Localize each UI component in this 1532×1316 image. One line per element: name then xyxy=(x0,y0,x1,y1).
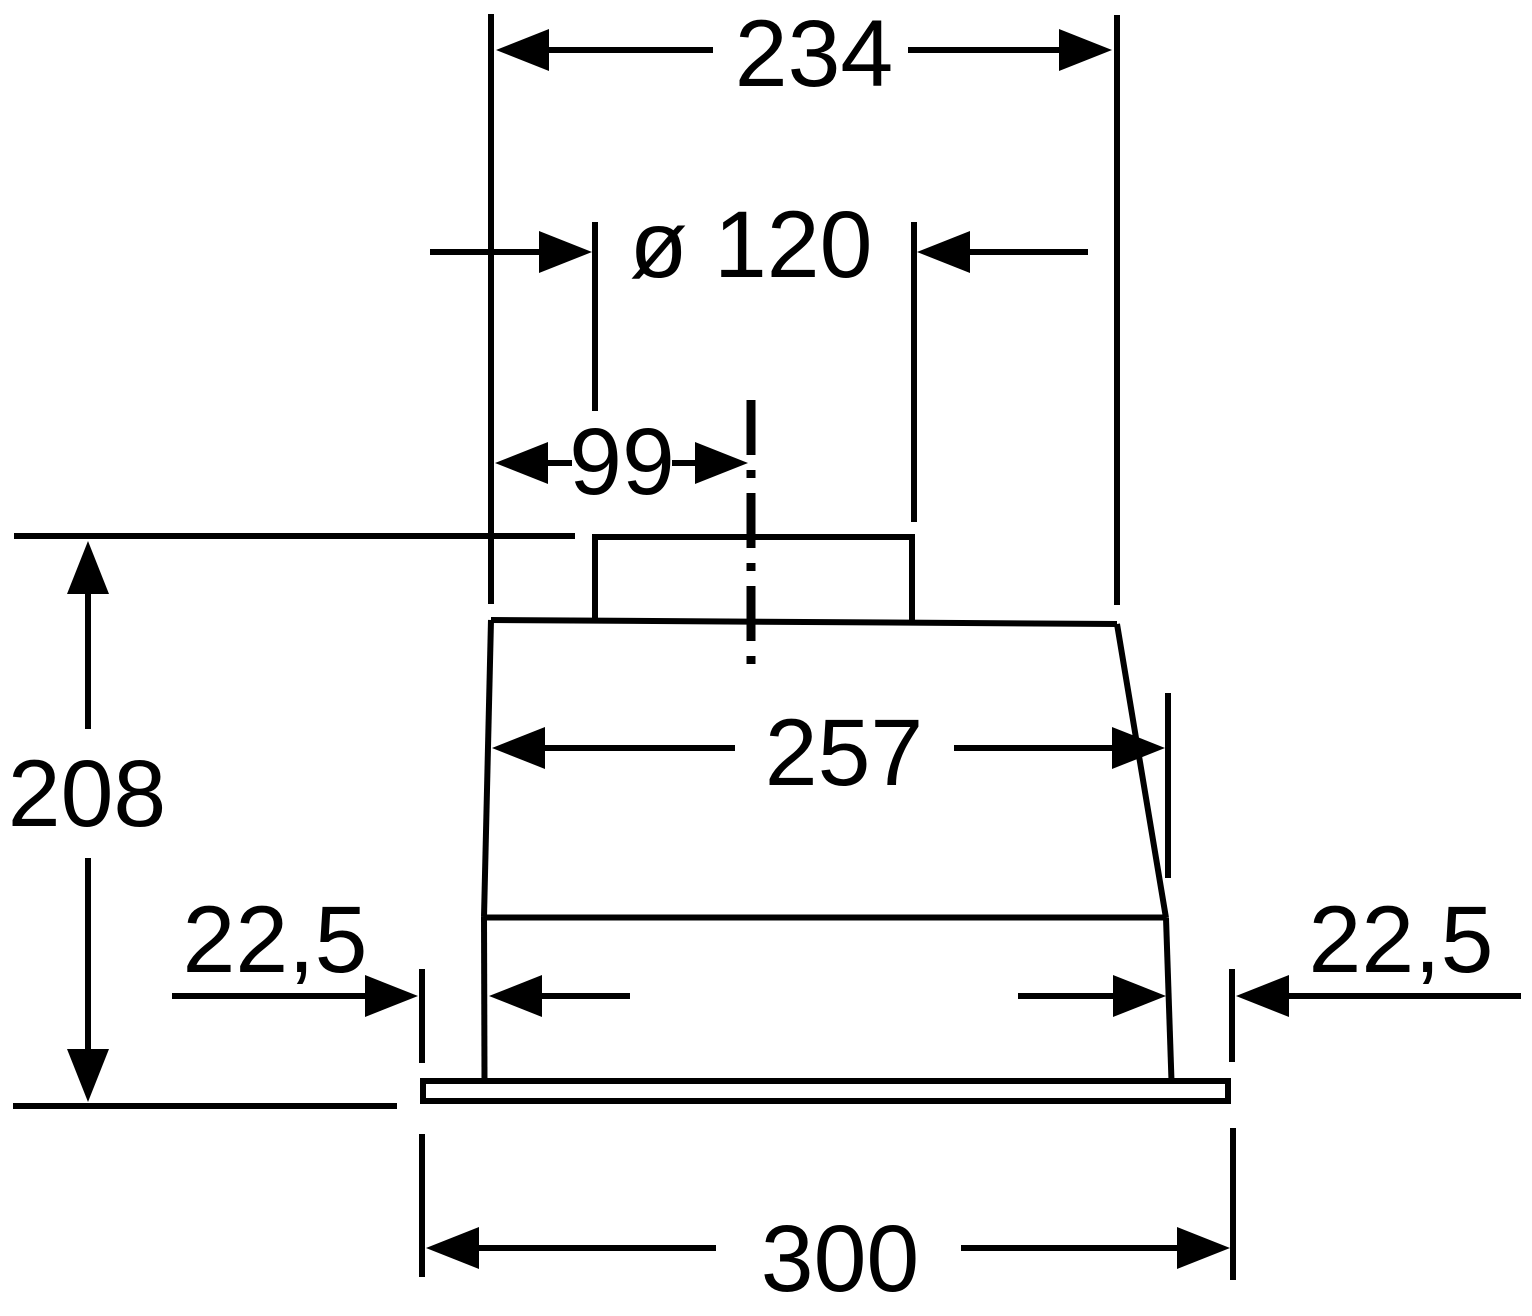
svg-text:22,5: 22,5 xyxy=(183,887,368,993)
wire: 234 dimension line left segment xyxy=(545,47,713,53)
arrowhead: 257 right xyxy=(1112,727,1165,769)
node: vertical centerline (dash-dot) xyxy=(747,400,756,667)
wire: 300 left extension line xyxy=(419,1134,425,1277)
arrowhead: 234 left xyxy=(496,29,549,71)
mounting flange outline xyxy=(423,1081,1228,1101)
wire: left 22,5 extension line xyxy=(419,969,425,1063)
wire: dia120 right extension line xyxy=(911,222,917,522)
svg-text:ø 120: ø 120 xyxy=(630,192,873,298)
arrowhead: dia120 right (pointing left) xyxy=(917,231,970,273)
wire: 208 dimension line lower shaft xyxy=(85,858,91,1052)
wire: 300 dimension line left segment xyxy=(476,1245,716,1251)
duct collar right edge xyxy=(909,535,915,621)
wire: right inner reference arrow shaft xyxy=(1018,993,1116,999)
wire: left inner reference arrow shaft xyxy=(539,993,630,999)
duct collar left edge xyxy=(592,535,598,621)
wire: 257 dimension line left segment xyxy=(542,745,735,751)
wire: 300 right extension line xyxy=(1230,1128,1236,1280)
arrowhead: right inner (pointing right) xyxy=(1113,975,1166,1017)
svg-text:300: 300 xyxy=(761,1206,920,1312)
arrowhead: left 22,5 (pointing right) xyxy=(365,975,418,1017)
wire: 257 dimension line right segment xyxy=(954,745,1116,751)
wire: 234 right extension line xyxy=(1114,15,1120,605)
wire: dia120 left extension line xyxy=(592,222,598,411)
wire: 234 dimension line right segment xyxy=(908,47,1062,53)
wire: 208 top reference line xyxy=(14,533,575,539)
hood body middle horizontal edge xyxy=(484,915,1166,921)
arrowhead: 300 right xyxy=(1177,1227,1230,1269)
wire: 208 bottom reference line xyxy=(13,1103,397,1109)
wire: 257 right extension tick xyxy=(1165,693,1171,878)
hood body right side upper slanted segment xyxy=(1117,624,1166,918)
arrowhead: 234 right xyxy=(1059,29,1112,71)
hood body left side upper segment xyxy=(484,620,491,917)
svg-text:257: 257 xyxy=(765,700,924,806)
hood body right side lower segment xyxy=(1166,918,1172,1081)
wire: 300 dimension line right segment xyxy=(961,1245,1180,1251)
svg-text:22,5: 22,5 xyxy=(1309,887,1494,993)
arrowhead: 257 left xyxy=(492,727,545,769)
arrowhead: 208 up xyxy=(67,541,109,594)
wire: left 22,5 dimension line xyxy=(172,993,368,999)
duct collar top edge xyxy=(592,534,915,540)
wire: 99 dimension line right tail xyxy=(672,460,700,466)
wire: 99 dimension line left tail xyxy=(545,460,572,466)
arrowhead: 300 left xyxy=(426,1227,479,1269)
svg-text:234: 234 xyxy=(735,1,894,107)
wire: dia120 right dimension line xyxy=(967,249,1088,255)
wire: 208 dimension line upper shaft xyxy=(85,590,91,729)
arrowhead: 99 left xyxy=(495,442,548,484)
svg-text:208: 208 xyxy=(8,741,167,847)
wire: right 22,5 dimension line xyxy=(1286,993,1521,999)
arrowhead: right 22,5 (pointing left) xyxy=(1236,975,1289,1017)
arrowhead: 208 down xyxy=(67,1049,109,1102)
arrowhead: left inner (pointing left) xyxy=(489,975,542,1017)
arrowhead: dia120 left (pointing right) xyxy=(539,231,592,273)
wire: dia120 left dimension line xyxy=(430,249,545,255)
svg-text:99: 99 xyxy=(569,409,675,515)
arrowhead: 99 right xyxy=(695,442,748,484)
hood body left side lower segment xyxy=(481,917,488,1081)
hood body top edge xyxy=(491,620,1117,624)
wire: right 22,5 extension line xyxy=(1229,969,1235,1062)
wire: 234 left extension line xyxy=(488,14,494,604)
